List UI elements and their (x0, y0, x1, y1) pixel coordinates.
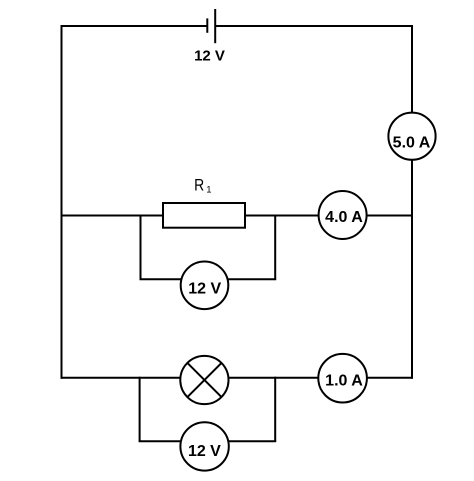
wire bottom branch (lamp branch) (61, 377, 414, 379)
svg-text:5.0 A: 5.0 A (393, 134, 431, 151)
wire V2 right drop (274, 377, 276, 442)
svg-text:4.0 A: 4.0 A (325, 209, 363, 226)
wire left rail (61, 25, 63, 379)
battery B1 short negative plate (206, 18, 208, 32)
svg-text:12 V: 12 V (188, 280, 221, 297)
lamp L1 cross stroke 1 (187, 363, 221, 397)
voltmeter V2 body (180, 422, 228, 470)
lamp L1 cross stroke 2 (187, 363, 221, 397)
svg-text:1.0 A: 1.0 A (325, 372, 363, 389)
lamp L1 body (180, 356, 228, 404)
wire V2 horizontal (139, 440, 277, 442)
battery B1 long positive plate (214, 9, 216, 43)
ammeter A1 body (388, 113, 435, 160)
svg-text:1: 1 (206, 184, 211, 195)
wire top-left segment (left rail to battery) (61, 25, 208, 27)
wire V1 right drop (274, 215, 276, 280)
wire right rail (411, 25, 413, 379)
wire V1 horizontal (140, 278, 277, 280)
resistor R1 reference label (194, 176, 204, 195)
svg-text:12 V: 12 V (188, 443, 221, 460)
ammeter A3 body (318, 354, 367, 403)
wire middle branch (node between R1 and ammeters) (61, 215, 414, 217)
resistor R1 body (163, 203, 245, 228)
wire top-right segment (battery to right rail) (215, 25, 413, 27)
svg-text:R: R (194, 176, 204, 195)
voltmeter V1 body (181, 262, 229, 310)
wire V2 left drop (139, 377, 141, 442)
ammeter A2 body (319, 191, 367, 239)
svg-text:12 V: 12 V (194, 48, 225, 65)
wire V1 left drop (140, 215, 142, 280)
